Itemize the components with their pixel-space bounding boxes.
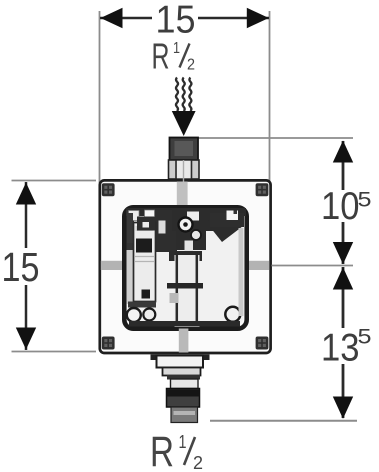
- secondary circle: [191, 230, 201, 240]
- left side tab: [101, 261, 125, 270]
- cartridge body: [134, 223, 156, 302]
- spindle column: [175, 255, 200, 327]
- left dimension line 15: [25, 182, 28, 248]
- top dimension line 15: [100, 17, 152, 20]
- white square top-right: [227, 211, 239, 221]
- outlet dark step: [167, 375, 200, 380]
- valve seat circle: [179, 218, 193, 232]
- left dimension extension line top: [12, 180, 97, 182]
- water flow arrow: [172, 111, 196, 136]
- arrow down 13.5: [333, 397, 353, 419]
- right side tab: [246, 261, 270, 270]
- corner screw bottom-right: [256, 337, 269, 350]
- gray block left of spindle: [170, 293, 179, 303]
- inlet connector dark block: [170, 138, 199, 161]
- svg-text:5: 5: [358, 326, 372, 349]
- svg-text:5: 5: [358, 189, 372, 212]
- inner corner circle bottom-right: [225, 307, 240, 322]
- valve body main dark: [172, 209, 228, 231]
- arrow up 13.5: [333, 267, 353, 289]
- extension line 10.5 top (from inlet): [198, 137, 353, 139]
- dark band under valve: [169, 251, 202, 261]
- mechanism light block A: [129, 211, 140, 221]
- inner right shadow: [239, 228, 244, 316]
- svg-text:13: 13: [321, 327, 360, 370]
- outlet step 2: [163, 368, 201, 376]
- mechanism light block B: [145, 210, 155, 221]
- svg-text:R: R: [150, 428, 174, 472]
- top dimension arrow right: [247, 8, 269, 28]
- valve body left dark part: [155, 210, 177, 252]
- light slot below valve seat: [185, 241, 194, 252]
- left dimension arrow up: [16, 183, 36, 205]
- top dimension extension line left: [99, 11, 101, 183]
- middle extension line (box axis): [272, 265, 354, 267]
- box top stem (inlet passage): [177, 182, 188, 207]
- label R 1/2 top: [152, 36, 196, 77]
- svg-text:10: 10: [321, 185, 360, 228]
- mechanism left dark edge: [127, 213, 133, 243]
- right dimension line 13.5: [342, 267, 345, 328]
- arrow down 10.5: [333, 242, 353, 264]
- arrow up 10.5: [333, 141, 353, 163]
- corner screw top-right: [256, 183, 269, 196]
- valve diagonal linkage: [206, 212, 243, 242]
- extension line bottom (from outlet end): [210, 420, 357, 422]
- outlet nut: [167, 389, 200, 408]
- inner bottom band: [129, 321, 240, 327]
- cartridge dark window: [136, 239, 152, 253]
- top dimension extension line right: [269, 11, 271, 183]
- corner screw top-left: [102, 183, 115, 196]
- svg-text:R: R: [152, 36, 170, 77]
- water flow squiggle: [176, 78, 191, 112]
- white patch on valve: [187, 212, 199, 221]
- left dimension arrow down: [16, 328, 36, 350]
- dark shoulder above cartridge window: [137, 217, 155, 231]
- svg-text:2: 2: [187, 57, 195, 74]
- outlet flange: [157, 356, 204, 368]
- mechanism left dark column: [127, 210, 135, 250]
- svg-text:2: 2: [193, 453, 203, 472]
- spindle cross bar: [167, 283, 203, 289]
- svg-text:1: 1: [179, 432, 187, 452]
- svg-text:15: 15: [2, 244, 40, 290]
- right dimension line 10.5: [342, 141, 345, 190]
- valve right dark band: [210, 213, 244, 227]
- outlet light band: [171, 379, 199, 389]
- inlet connector lower collar: [169, 160, 200, 179]
- svg-text:1: 1: [173, 40, 180, 57]
- label R 1/2 bottom: [150, 428, 203, 472]
- outlet flange ears: [151, 355, 158, 361]
- box bottom stem (outlet passage): [179, 329, 189, 353]
- dark marks above bottom-left circles: [128, 302, 156, 308]
- inner corner circle bottom-left: [127, 308, 141, 322]
- protection box outer shell: [100, 180, 271, 353]
- inner corner ring bottom-left 2: [143, 309, 155, 321]
- top dimension arrow left: [101, 8, 123, 28]
- outlet tail: [171, 407, 198, 423]
- inner frame: [124, 207, 246, 328]
- cartridge small dark square: [142, 290, 151, 299]
- left dimension extension line bottom: [12, 351, 97, 353]
- corner screw bottom-left: [102, 337, 115, 350]
- mechanism top dark band: [126, 208, 246, 216]
